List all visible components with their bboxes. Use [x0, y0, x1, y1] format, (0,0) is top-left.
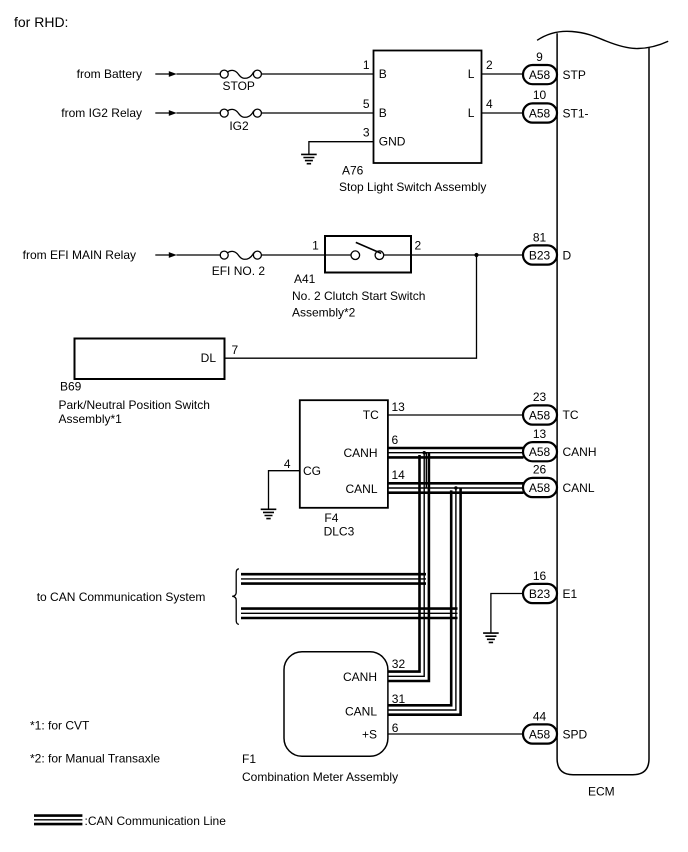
svg-text:L: L	[468, 67, 475, 81]
svg-text:2: 2	[415, 238, 422, 252]
svg-text:CANL: CANL	[345, 482, 377, 496]
svg-text:ST1-: ST1-	[563, 106, 589, 120]
svg-text:F1: F1	[242, 752, 256, 766]
svg-text:9: 9	[536, 50, 543, 64]
svg-text:Combination Meter Assembly: Combination Meter Assembly	[242, 770, 398, 784]
svg-text:CG: CG	[303, 464, 321, 478]
svg-text:STOP: STOP	[222, 79, 254, 93]
svg-text:A41: A41	[294, 272, 316, 286]
svg-text:STP: STP	[563, 68, 586, 82]
svg-text:B23: B23	[529, 248, 551, 262]
svg-text:6: 6	[392, 433, 399, 447]
svg-text:D: D	[563, 248, 572, 262]
svg-text:4: 4	[284, 457, 291, 471]
svg-text:DL: DL	[201, 351, 217, 365]
svg-text:13: 13	[533, 427, 547, 441]
svg-text:F4: F4	[324, 511, 338, 525]
svg-text:CANH: CANH	[343, 446, 377, 460]
svg-text:from IG2 Relay: from IG2 Relay	[61, 106, 142, 120]
svg-text:A58: A58	[529, 68, 551, 82]
svg-text:31: 31	[392, 692, 406, 706]
svg-text:A76: A76	[342, 163, 364, 177]
svg-text:81: 81	[533, 230, 547, 244]
svg-text:5: 5	[363, 97, 370, 111]
svg-text:B69: B69	[60, 380, 82, 394]
svg-text:7: 7	[232, 343, 239, 357]
svg-text:3: 3	[363, 125, 370, 139]
svg-text:SPD: SPD	[563, 727, 588, 741]
svg-text:*2: for Manual Transaxle: *2: for Manual Transaxle	[30, 752, 160, 766]
svg-text:*1: for CVT: *1: for CVT	[30, 718, 90, 732]
svg-text:for RHD:: for RHD:	[14, 14, 68, 30]
svg-text:2: 2	[486, 58, 493, 72]
svg-text:32: 32	[392, 657, 406, 671]
svg-text:10: 10	[533, 88, 547, 102]
svg-text:44: 44	[533, 709, 547, 723]
svg-text:B23: B23	[529, 587, 551, 601]
svg-text:IG2: IG2	[229, 119, 249, 133]
svg-text:1: 1	[363, 58, 370, 72]
svg-text:from Battery: from Battery	[77, 67, 142, 81]
svg-text:TC: TC	[563, 408, 579, 422]
svg-text:+S: +S	[362, 727, 377, 741]
svg-text:TC: TC	[363, 408, 379, 422]
svg-text:Assembly*2: Assembly*2	[292, 306, 356, 320]
svg-text:EFI NO. 2: EFI NO. 2	[212, 264, 266, 278]
svg-text:Assembly*1: Assembly*1	[59, 412, 123, 426]
svg-text:Stop Light Switch Assembly: Stop Light Switch Assembly	[339, 180, 486, 194]
svg-text:CANL: CANL	[345, 704, 377, 718]
svg-text:L: L	[468, 106, 475, 120]
svg-text:B: B	[379, 106, 387, 120]
svg-text:1: 1	[312, 238, 319, 252]
svg-text:E1: E1	[563, 587, 578, 601]
svg-text:No. 2 Clutch Start Switch: No. 2 Clutch Start Switch	[292, 289, 425, 303]
svg-text:A58: A58	[529, 727, 551, 741]
svg-text:ECM: ECM	[588, 784, 615, 798]
svg-text:A58: A58	[529, 106, 551, 120]
svg-text:26: 26	[533, 463, 547, 477]
svg-text:A58: A58	[529, 445, 551, 459]
svg-text:CANH: CANH	[343, 670, 377, 684]
svg-text:Park/Neutral Position Switch: Park/Neutral Position Switch	[59, 398, 210, 412]
svg-text:from EFI MAIN Relay: from EFI MAIN Relay	[23, 248, 136, 262]
svg-text:to CAN Communication System: to CAN Communication System	[37, 590, 206, 604]
svg-text:A58: A58	[529, 481, 551, 495]
svg-text:4: 4	[486, 97, 493, 111]
svg-text:CANH: CANH	[563, 445, 597, 459]
svg-text:13: 13	[392, 400, 406, 414]
svg-text:DLC3: DLC3	[324, 525, 355, 539]
svg-text:16: 16	[533, 569, 547, 583]
svg-text:A58: A58	[529, 408, 551, 422]
svg-text:B: B	[379, 67, 387, 81]
svg-text:23: 23	[533, 390, 547, 404]
svg-text:14: 14	[392, 468, 406, 482]
svg-text::CAN Communication Line: :CAN Communication Line	[85, 814, 227, 828]
svg-text:GND: GND	[379, 135, 406, 149]
svg-text:6: 6	[392, 721, 399, 735]
svg-text:CANL: CANL	[563, 481, 595, 495]
